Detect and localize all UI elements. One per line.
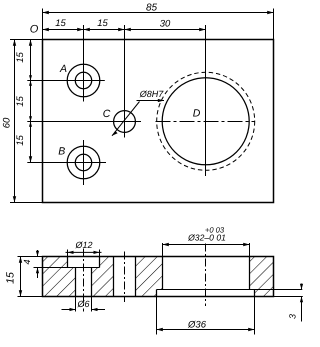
svg-text:15: 15 (55, 18, 66, 29)
svg-text:C: C (103, 108, 111, 120)
dim Ø6 left extension line (75, 297, 77, 312)
hatching right block above recess (250, 257, 274, 290)
hole A section centerline (83, 249, 85, 312)
counterbore notch left wall (67, 257, 69, 268)
dim 15 section arrow top (19, 257, 22, 263)
hatching left block with counterbore step (43, 257, 76, 297)
dim 3 bottom extension line (274, 296, 303, 298)
dim 85 arrow right (267, 11, 273, 14)
hole D solid circle (Ø32) (162, 78, 249, 165)
leader Ø8H7 arrowhead at Ø36 circle (158, 99, 164, 102)
dim row arrow at D column (199, 28, 205, 31)
dim 60 top extension line (10, 39, 43, 41)
dim Ø36 right extension line (254, 297, 256, 335)
svg-text:Ø32–0 01: Ø32–0 01 (187, 233, 226, 243)
dim Ø32 arrow right (243, 243, 249, 246)
leader Ø8H7 arrowhead at hole C (112, 131, 118, 136)
dim 15 section top extension line (18, 256, 43, 258)
svg-text:Ø8H7: Ø8H7 (139, 89, 165, 99)
svg-text:15: 15 (15, 52, 26, 63)
dim 85 arrow left (43, 11, 49, 14)
dim Ø12 arrow right (inside) (94, 251, 100, 254)
plate outline (43, 40, 274, 203)
hole B vertical centerline (83, 140, 85, 185)
svg-text:30: 30 (160, 19, 171, 30)
hole C vertical centerline / extension to top dim row (124, 25, 126, 138)
hatching block between Ø6 hole and C slot (92, 257, 114, 297)
Ø36 recess ceiling + extension to dim 3 (157, 289, 303, 291)
hole B outer circle (counterbore Ø12) (67, 146, 100, 179)
svg-text:4: 4 (22, 259, 32, 264)
dim 3 lower arrow and tail (301, 297, 303, 322)
dim 3 upper arrow (301, 284, 303, 290)
Ø32 hole left wall (162, 257, 164, 290)
dim Ø12 line (66, 251, 102, 253)
counterbore notch right wall (99, 257, 101, 268)
dim Ø32 left extension line (162, 243, 164, 257)
dim 60 arrow top (13, 40, 16, 46)
dim Ø36 arrow right (248, 328, 254, 331)
svg-text:Ø36: Ø36 (187, 320, 207, 331)
Ø6 hole left wall (75, 268, 77, 297)
svg-text:15: 15 (5, 272, 17, 284)
svg-text:D: D (193, 108, 201, 120)
svg-text:15: 15 (15, 135, 26, 146)
dim Ø36 line (157, 329, 255, 331)
hole A horizontal centerline / extension to left chain (27, 80, 105, 82)
dim Ø36 left extension line (156, 297, 158, 335)
dim 4 lower arrow (37, 268, 39, 279)
hole A outer circle (counterbore Ø12) (67, 64, 100, 97)
hole A vertical centerline / extension to top dim row (83, 25, 85, 102)
dim Ø6 arrow left (outside) (70, 308, 76, 311)
hole D vertical centerline / extension to top dim row (205, 25, 207, 176)
hole A inner circle (Ø6) (75, 72, 91, 88)
svg-text:15: 15 (97, 18, 108, 29)
hole D dashed circle (Ø36 hidden recess) (157, 72, 255, 170)
svg-text:O: O (30, 24, 39, 36)
svg-text:Ø6: Ø6 (76, 299, 89, 309)
hole B horizontal centerline / extension to left chain (27, 162, 106, 164)
dim Ø6 right extension line (91, 297, 93, 312)
dim row 15/15/30 line (43, 29, 206, 31)
dim Ø36 arrow left (157, 328, 163, 331)
dim Ø6 line left segment (62, 309, 76, 311)
dim 4 upper arrow (37, 250, 39, 257)
dim row arrows at C column (118, 28, 131, 31)
hatching small bottom-right block (255, 290, 274, 297)
dim Ø32 right extension line (249, 243, 251, 257)
Ø32 hole right wall (249, 257, 251, 290)
dim 15 section bottom extension line (18, 296, 43, 298)
hole C horizontal centerline / extension to left chain (27, 121, 141, 123)
Ø6 hole right wall (91, 268, 93, 297)
hole C circle (Ø8H7) (114, 111, 136, 133)
C slot right wall (135, 257, 137, 297)
Ø36 recess left wall (156, 290, 158, 297)
svg-text:85: 85 (146, 3, 158, 14)
dim 60 line (14, 40, 16, 203)
leader Ø8H7 horizontal shelf (137, 100, 165, 102)
hole D section centerline (205, 244, 207, 307)
dim 85 line (43, 12, 274, 14)
dim Ø6 arrow right (outside) (92, 308, 98, 311)
chain arrow at top edge (29, 40, 32, 46)
dim 85 left extension line (42, 9, 44, 40)
dim 15 section arrow bottom (19, 290, 22, 296)
chain arrows at C row (29, 116, 32, 127)
svg-text:A: A (59, 63, 67, 75)
dim row arrow at O column (43, 28, 49, 31)
dim Ø12 left extension line (67, 250, 69, 257)
dim 15 section line (20, 257, 22, 297)
leader Ø8H7 diagonal line through hole C (112, 102, 140, 136)
svg-text:15: 15 (15, 96, 26, 107)
dim 60 arrow bottom (13, 196, 16, 202)
dim Ø32 arrow left (163, 243, 169, 246)
svg-text:3: 3 (288, 314, 298, 319)
dim chain 15 line (left side) (30, 40, 32, 163)
chain arrow at B row (29, 156, 32, 162)
svg-text:B: B (58, 146, 65, 158)
section outline (43, 257, 274, 297)
hole D horizontal dash-dot centerline (156, 121, 255, 123)
Ø36 recess right wall (254, 290, 256, 297)
hatching block between C slot and Ø32 hole (136, 257, 163, 297)
dim 85 right extension line (273, 9, 275, 40)
hole B inner circle (Ø6) (75, 154, 91, 170)
dim Ø12 right extension line (99, 250, 101, 257)
C slot left wall (113, 257, 115, 297)
dim Ø6 line right segment (92, 309, 106, 311)
dim row arrows at A column (77, 28, 90, 31)
dim 60 bottom extension line (10, 202, 43, 204)
counterbore notch bottom + extension to dim 4 (34, 267, 100, 269)
dim Ø12 arrow left (inside) (68, 251, 74, 254)
hole C section centerline (124, 252, 126, 303)
svg-text:Ø12: Ø12 (74, 240, 92, 250)
svg-text:60: 60 (2, 117, 13, 128)
chain arrows at A row (29, 75, 32, 86)
dim Ø32 line (163, 244, 250, 246)
